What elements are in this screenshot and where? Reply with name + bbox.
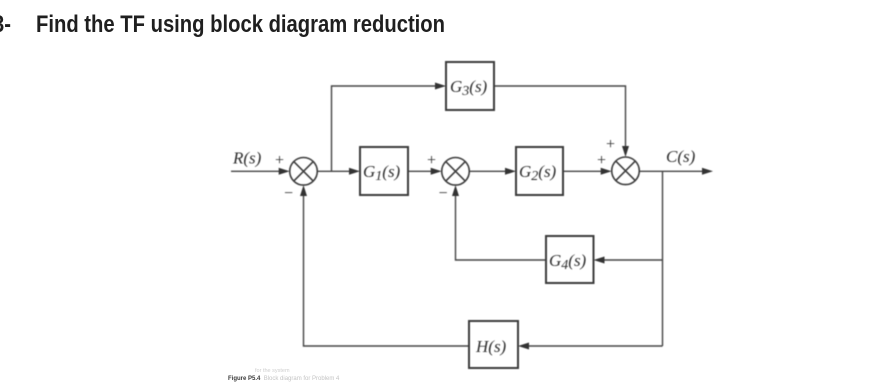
wire: G3 output to summer3 [494, 86, 626, 149]
arrowhead into summer2 [431, 168, 442, 175]
wire: G1 to summer2 [408, 170, 434, 172]
arrowhead into G3 [435, 83, 446, 90]
svg-text:+: + [597, 152, 606, 169]
arrowhead into summer1 [279, 168, 290, 175]
svg-text:G3(s): G3(s) [450, 77, 488, 99]
arrowhead into H [518, 343, 529, 350]
wire: takeoff vertical to G3 path [332, 86, 439, 171]
svg-text:G1(s): G1(s) [363, 162, 401, 184]
svg-text:R(s): R(s) [232, 149, 262, 168]
wire: summer3 to C(s) output [639, 170, 705, 172]
arrowhead into G2 [505, 168, 516, 175]
wire: G4 feedback right segment [601, 259, 663, 261]
block G2 [516, 147, 563, 195]
summer S3 [612, 157, 640, 185]
svg-text:−: − [284, 185, 293, 202]
svg-text:G4(s): G4(s) [549, 251, 587, 273]
wire: G4 output to summer2 bottom [456, 192, 547, 260]
arrowhead into G4 [594, 257, 605, 264]
arrowhead into summer3 from top [622, 146, 629, 157]
wire: H output to summer1 bottom [304, 192, 470, 346]
arrowhead into summer3 from left [601, 168, 612, 175]
summer S2 [442, 158, 470, 186]
wire: takeoff vertical down from C(s) node [662, 171, 664, 346]
arrowhead C(s) output [702, 168, 713, 175]
svg-text:C(s): C(s) [666, 147, 696, 166]
block G4 [546, 236, 594, 283]
arrowhead into summer2 from bottom [452, 185, 459, 196]
block G1 [360, 147, 408, 195]
summer S1 [290, 158, 318, 186]
svg-text:G2(s): G2(s) [519, 162, 557, 184]
block H [469, 321, 518, 368]
figure caption [228, 376, 339, 382]
svg-text:+: + [275, 152, 284, 169]
arrowhead into summer1 from bottom [300, 185, 307, 196]
block G3 [446, 62, 494, 110]
wire: H feedback right segment [525, 345, 663, 347]
svg-text:H(s): H(s) [475, 337, 507, 356]
title text [0, 11, 11, 39]
svg-text:+: + [606, 136, 615, 153]
svg-text:+: + [427, 152, 436, 169]
arrowhead into G1 [349, 168, 360, 175]
wire: R(s) input line [231, 170, 281, 172]
wire: G2 to summer3 [563, 170, 604, 172]
svg-text:−: − [439, 185, 448, 202]
wire: summer2 to G2 [469, 170, 508, 172]
wire: summer1 to G1 with takeoff node [317, 170, 352, 172]
